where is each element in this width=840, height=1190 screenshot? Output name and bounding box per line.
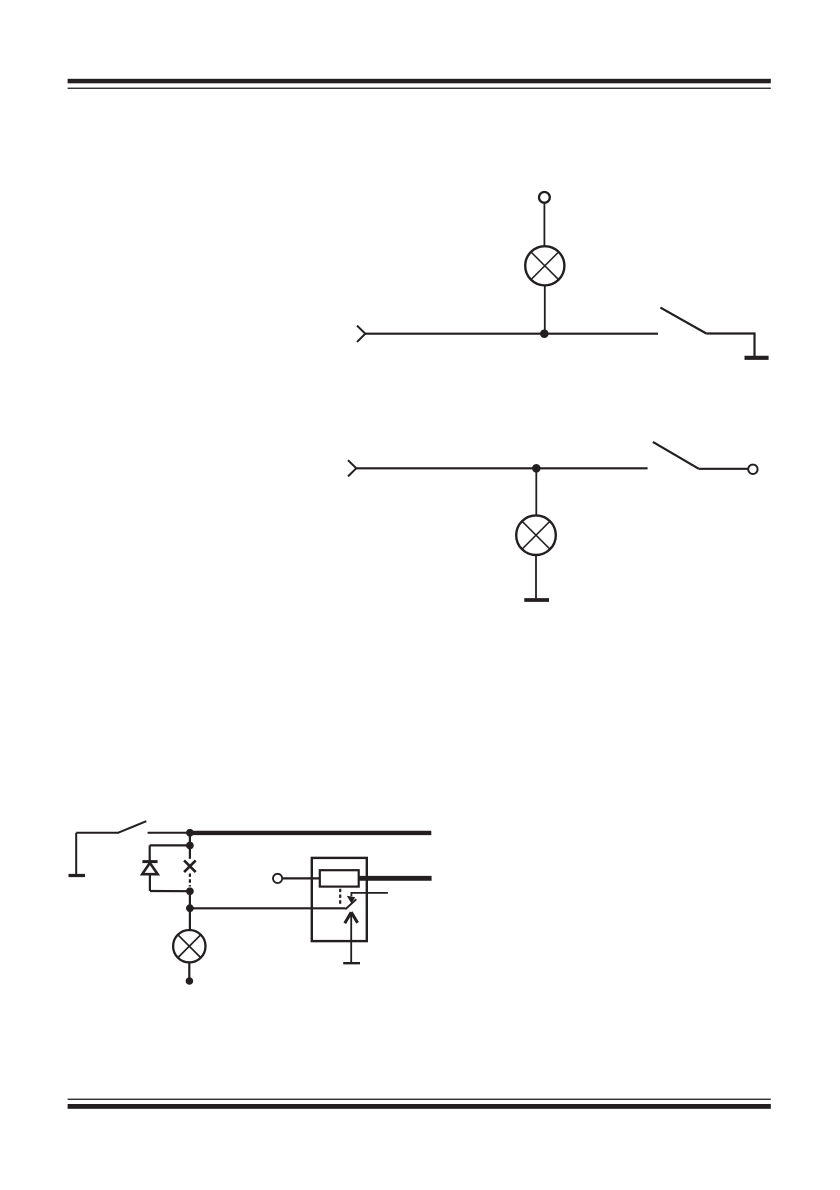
wire — [189, 908, 191, 930]
wire — [189, 891, 191, 908]
switch S1 — [660, 308, 706, 334]
mechanical link — [339, 889, 341, 905]
terminal T1 — [539, 192, 550, 203]
breaker contact X — [184, 860, 196, 872]
wire — [706, 334, 754, 357]
wire — [535, 473, 537, 515]
wire — [699, 468, 749, 470]
terminal T3 — [273, 874, 282, 883]
relay K1 box — [312, 858, 367, 941]
wire — [149, 874, 151, 891]
mechanical link — [189, 874, 191, 887]
node junction 2 — [532, 464, 541, 473]
lamp E2 — [516, 515, 556, 555]
node C — [186, 887, 194, 895]
wire — [75, 833, 77, 875]
wire — [149, 845, 151, 860]
switch S3 — [118, 821, 146, 833]
switch S2 — [653, 442, 699, 469]
wire — [365, 333, 658, 335]
relay contact arm — [345, 896, 356, 910]
wire — [282, 877, 320, 879]
ground — [343, 962, 360, 964]
relay coil — [320, 870, 359, 886]
wire — [148, 832, 190, 834]
ground — [524, 598, 549, 602]
wire — [190, 907, 345, 909]
connector arrow — [357, 326, 365, 342]
connector arrow — [348, 460, 356, 476]
wire — [356, 467, 647, 469]
wire — [189, 833, 191, 846]
wire — [150, 844, 190, 846]
node E — [186, 977, 194, 985]
wire — [543, 203, 545, 247]
wire — [544, 285, 546, 333]
diode D1 — [142, 862, 158, 875]
node B — [186, 842, 194, 850]
ground — [745, 356, 769, 360]
node junction 1 — [540, 329, 549, 338]
lamp E3 — [173, 930, 205, 962]
wire — [76, 832, 119, 834]
node A — [186, 829, 194, 837]
wire — [188, 962, 190, 979]
ground — [69, 874, 86, 877]
wire — [535, 555, 537, 598]
lamp E1 — [525, 246, 564, 285]
wire — [189, 846, 191, 859]
wire — [150, 890, 190, 892]
actuating arrow — [345, 912, 358, 962]
contact fixed — [351, 893, 388, 896]
wire bus — [190, 831, 431, 835]
node D — [186, 904, 194, 912]
terminal T2 — [748, 465, 757, 474]
wire bus — [359, 876, 432, 881]
